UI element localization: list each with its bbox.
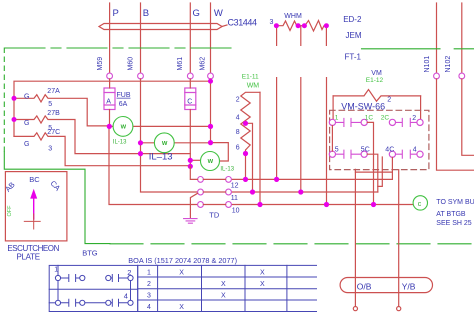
svg-text:N101: N101 — [424, 56, 431, 73]
svg-text:X: X — [179, 304, 184, 311]
wire WHM middle drop to row 11 — [300, 78, 302, 192]
svg-text:5: 5 — [335, 146, 339, 153]
wire WHM left drop to row 12 — [276, 78, 278, 180]
switch VM-SW-66 dashed box — [330, 110, 429, 169]
svg-text:M62: M62 — [200, 57, 207, 71]
connector bus C31444 — [99, 24, 227, 30]
switch pole links — [58, 265, 131, 300]
wire fuse A to W1 row — [109, 110, 111, 127]
wire contact 1C down to row 10 net — [367, 122, 373, 204]
wire TD row10 link — [203, 204, 225, 206]
resistor E1-11 WM (tapped) — [241, 92, 260, 204]
svg-text:2C: 2C — [381, 115, 390, 122]
svg-text:6A: 6A — [119, 101, 128, 108]
svg-text:G: G — [193, 8, 200, 19]
boundary green dashed bottom line — [110, 243, 474, 245]
contact bars bottom row — [336, 150, 417, 158]
contact TD row 11 — [198, 189, 232, 195]
svg-text:G: G — [24, 141, 29, 148]
resistor 27C with switch G — [14, 133, 190, 166]
wire contact1 to contact5 — [331, 126, 333, 152]
junction dots left bus — [12, 96, 17, 122]
contact 1C (VM-SW) — [361, 119, 367, 125]
wire N101 feeder — [436, 3, 438, 73]
svg-text:JEM: JEM — [346, 31, 362, 40]
svg-text:12: 12 — [231, 182, 239, 189]
svg-text:FUB: FUB — [117, 92, 131, 99]
wire N102 drop to right edge — [462, 79, 474, 155]
contact bars top row — [336, 118, 417, 126]
svg-text:W: W — [121, 125, 127, 131]
svg-text:TO SYM BUS: TO SYM BUS — [436, 199, 474, 206]
wire fuse C down to M61 junctions — [189, 110, 191, 167]
svg-text:2: 2 — [412, 115, 416, 122]
svg-text:FT-1: FT-1 — [345, 52, 362, 61]
svg-text:4: 4 — [236, 115, 240, 122]
boundary green solid around escutcheon to BTG — [4, 152, 110, 244]
svg-text:M59: M59 — [97, 57, 104, 71]
svg-text:C31444: C31444 — [228, 17, 258, 27]
switch contacts row A — [55, 275, 133, 282]
svg-text:G: G — [24, 93, 29, 100]
svg-text:11: 11 — [231, 195, 238, 202]
svg-text:5C: 5C — [361, 146, 370, 153]
wire M59 circle to fuse A — [109, 79, 111, 88]
terminal circle M60 — [138, 73, 144, 79]
svg-text:4C: 4C — [385, 146, 394, 153]
svg-text:PLATE: PLATE — [17, 253, 40, 262]
svg-text:N102: N102 — [445, 56, 452, 73]
svg-text:1: 1 — [54, 267, 58, 274]
svg-text:BOA IS (1517 2074 2078 & 2077): BOA IS (1517 2074 2078 & 2077) — [128, 256, 237, 265]
lamp W2 (IL-13) row wire — [141, 142, 211, 144]
wire TD row12 link — [190, 166, 225, 179]
wire B (M60 feeder) — [140, 3, 142, 73]
lamp W1 (IL-13) row wire — [110, 125, 211, 127]
boundary FT-1 green line — [362, 48, 441, 50]
svg-text:2: 2 — [387, 97, 391, 104]
terminal circle Y/B — [397, 307, 401, 311]
lamp W2 circle — [154, 133, 174, 153]
wire row 11 net — [231, 191, 377, 193]
ground — [184, 219, 197, 224]
junction dots WHM — [274, 23, 329, 28]
svg-text:W: W — [208, 159, 214, 165]
svg-text:c: c — [418, 201, 422, 208]
contact TD row 10 — [198, 202, 232, 208]
svg-text:WM: WM — [247, 83, 260, 90]
svg-text:4: 4 — [147, 304, 151, 311]
wire WHM right drop to row 10 — [326, 78, 328, 205]
svg-text:ESCUTCHEON: ESCUTCHEON — [7, 244, 59, 253]
svg-text:4: 4 — [124, 291, 128, 300]
table (BOA) — [138, 265, 317, 311]
terminal circle M61 — [187, 73, 193, 79]
svg-text:IL-13: IL-13 — [220, 166, 234, 172]
contact 4C (VM-SW) — [389, 151, 395, 157]
svg-text:SEE SH 25: SEE SH 25 — [436, 220, 472, 227]
svg-text:1C: 1C — [365, 115, 374, 122]
contact 2 (VM-SW) — [417, 119, 423, 125]
terminal circle N102 — [459, 73, 465, 79]
svg-text:M61: M61 — [177, 57, 184, 71]
svg-text:3: 3 — [270, 19, 274, 26]
wire W (M62 feeder) — [210, 3, 212, 73]
svg-text:2: 2 — [127, 268, 131, 277]
svg-text:4: 4 — [413, 146, 417, 153]
contact 4 (VM-SW) — [417, 151, 423, 157]
wire contact 5C down to row 11 net — [367, 154, 378, 192]
svg-text:5: 5 — [48, 101, 52, 108]
svg-text:BTG: BTG — [82, 248, 98, 257]
svg-text:O/B: O/B — [357, 282, 372, 292]
svg-text:E1-11: E1-11 — [242, 74, 259, 81]
wire M61 junction to W3 left side — [190, 159, 200, 161]
svg-text:3: 3 — [48, 145, 52, 152]
terminal stadium O/B Y/B — [340, 278, 432, 293]
wire contact 4C down to row 12 net and O/B tap — [355, 157, 392, 179]
wire M62 loop to W3 right side — [211, 143, 229, 161]
resistor WHM — [276, 21, 326, 46]
svg-text:8: 8 — [236, 129, 240, 136]
svg-text:WHM: WHM — [284, 13, 302, 20]
wire E1-12 right leg to contact 2 — [420, 96, 422, 119]
svg-text:IL-13: IL-13 — [113, 140, 127, 146]
fuse FUB A — [104, 88, 115, 110]
svg-text:M60: M60 — [127, 57, 134, 71]
wire TD row11 link — [203, 191, 225, 193]
svg-text:W: W — [214, 8, 223, 19]
svg-text:Y/B: Y/B — [402, 282, 416, 292]
switch contacts row B — [49, 299, 133, 306]
contact 1 (VM-SW) — [329, 119, 335, 125]
wire N101 drop to right edge — [437, 79, 474, 170]
lamp W1 circle — [113, 117, 133, 137]
junction dots E1-11 — [243, 121, 248, 156]
contact TD row 12 — [198, 177, 232, 183]
svg-text:AT BTGB: AT BTGB — [436, 211, 466, 218]
terminal circle M62 — [208, 73, 214, 79]
wire Y/B drop — [398, 170, 400, 307]
svg-text:ED-2: ED-2 — [343, 15, 362, 24]
wire E1-12 left leg to contact 1 — [332, 96, 334, 119]
wire M61 circle to fuse C — [189, 79, 191, 88]
wire stub 4C-left with jog — [378, 157, 383, 186]
contact 5 (VM-SW) — [329, 151, 335, 157]
svg-text:W: W — [162, 141, 168, 147]
symbol c circle (to sym bus) — [413, 196, 427, 210]
wire O/B drop — [354, 169, 356, 306]
svg-text:CA: CA — [49, 179, 63, 193]
svg-text:G: G — [24, 120, 29, 127]
wire row 12 net — [231, 178, 392, 180]
wire row 10 net to symbol c — [231, 204, 412, 206]
svg-text:IL–13: IL–13 — [149, 152, 173, 163]
contact 5C (VM-SW) — [361, 151, 367, 157]
escutcheon plate box — [5, 172, 67, 241]
resistor VM E1-12 — [333, 90, 421, 102]
pointer arrow (escutcheon) — [33, 198, 35, 219]
svg-text:X: X — [260, 281, 265, 288]
svg-text:3: 3 — [147, 293, 151, 300]
wire M59 branch down to row 10 — [109, 126, 198, 204]
resistor 27A with switch G — [14, 95, 108, 126]
svg-text:1: 1 — [335, 115, 339, 122]
terminal circle N101 — [434, 73, 440, 79]
boundary green dashes top right — [454, 48, 473, 50]
svg-text:E1-12: E1-12 — [366, 77, 384, 84]
switch detail box (bottom left) — [49, 265, 138, 311]
wire M60 drop to row 11 — [141, 79, 198, 192]
terminal circle M59 — [107, 73, 113, 79]
svg-text:10: 10 — [232, 207, 240, 214]
boundary green dashed left border — [3, 48, 5, 152]
junction dots middle rows — [107, 79, 213, 169]
svg-text:P: P — [113, 8, 119, 19]
svg-text:27B: 27B — [47, 110, 60, 117]
svg-text:OFF: OFF — [7, 205, 13, 217]
svg-text:X: X — [260, 270, 265, 277]
boundary green dashed top border — [5, 47, 237, 49]
svg-text:1: 1 — [147, 270, 151, 277]
lamp W3 circle — [201, 152, 220, 171]
wire N102 feeder — [461, 3, 463, 73]
wire M62 drop — [210, 79, 212, 143]
svg-text:B: B — [143, 8, 149, 19]
svg-text:27A: 27A — [47, 88, 60, 95]
svg-text:VM: VM — [371, 70, 382, 77]
fuse FUB C — [185, 88, 196, 110]
svg-text:X: X — [179, 270, 184, 277]
svg-text:X: X — [221, 281, 226, 288]
svg-text:A: A — [106, 99, 111, 106]
wire G (M61 feeder) — [189, 3, 191, 73]
svg-text:2: 2 — [236, 96, 240, 103]
svg-text:2: 2 — [147, 281, 151, 288]
svg-text:TD: TD — [209, 211, 220, 220]
wire P (M59 feeder) — [109, 3, 111, 73]
switch blade to ground — [190, 193, 197, 218]
terminal circle O/B — [353, 307, 357, 311]
cross mark (escutcheon) — [24, 214, 40, 229]
wire main feeder bus y=81 — [14, 81, 211, 136]
resistor 27B with switch G — [14, 116, 190, 154]
junction dots row nets — [243, 177, 376, 207]
svg-text:27C: 27C — [47, 129, 60, 136]
contact 2C (VM-SW) — [389, 119, 395, 125]
svg-text:6: 6 — [236, 145, 240, 152]
svg-text:X: X — [221, 293, 226, 300]
svg-text:BC: BC — [29, 175, 40, 184]
svg-text:C: C — [187, 99, 192, 106]
